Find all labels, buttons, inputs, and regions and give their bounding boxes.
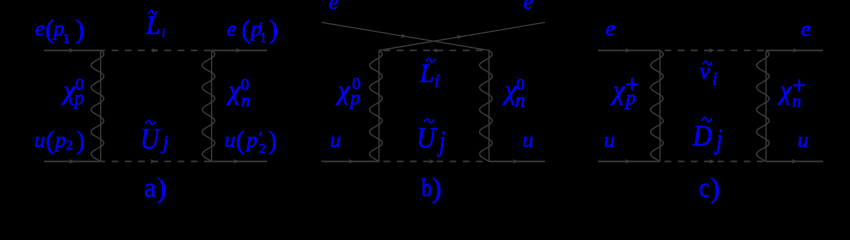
svg-text:D: D	[692, 120, 713, 153]
svg-text:(: (	[236, 126, 245, 155]
svg-text:U: U	[417, 122, 437, 155]
svg-text:2: 2	[259, 142, 266, 157]
svg-text:): )	[710, 172, 720, 204]
svg-text:e: e	[35, 16, 45, 41]
svg-text:u: u	[523, 127, 534, 152]
svg-text:n: n	[241, 91, 250, 111]
svg-text:p: p	[72, 88, 84, 110]
svg-text:2: 2	[66, 139, 73, 154]
svg-text:n: n	[792, 91, 801, 111]
svg-text:): )	[432, 172, 442, 204]
svg-text:u: u	[798, 127, 809, 152]
svg-text:b: b	[422, 174, 432, 201]
svg-text:): )	[157, 172, 167, 204]
svg-text:e: e	[606, 16, 616, 41]
svg-text:e: e	[523, 0, 533, 14]
svg-text:(: (	[46, 126, 55, 155]
svg-text:n: n	[515, 90, 525, 112]
svg-text:i: i	[712, 69, 717, 90]
svg-text:): )	[269, 15, 278, 44]
svg-text:1: 1	[260, 31, 267, 46]
svg-text:a: a	[144, 172, 156, 202]
svg-text:u: u	[330, 127, 341, 152]
svg-text:L: L	[145, 11, 160, 40]
svg-text:e: e	[801, 16, 811, 41]
svg-text:p: p	[624, 88, 636, 110]
svg-text:): )	[76, 15, 85, 44]
svg-text:i: i	[434, 71, 439, 92]
svg-text:u: u	[225, 127, 236, 152]
svg-text:χ: χ	[777, 75, 793, 105]
svg-text:χ: χ	[226, 75, 242, 105]
svg-text:L: L	[419, 59, 434, 88]
svg-text:): )	[76, 126, 85, 155]
svg-text:i: i	[162, 25, 166, 40]
svg-text:(: (	[242, 15, 251, 44]
svg-text:1: 1	[63, 32, 70, 47]
svg-text:p: p	[245, 127, 258, 152]
svg-text:u: u	[604, 127, 615, 152]
svg-text:p: p	[53, 127, 66, 152]
svg-text:χ: χ	[610, 75, 626, 105]
svg-text:e: e	[329, 0, 339, 14]
svg-text:): )	[268, 126, 277, 155]
svg-text:ν: ν	[700, 59, 711, 85]
svg-text:U: U	[140, 123, 160, 156]
svg-text:χ: χ	[335, 75, 351, 105]
svg-text:u: u	[34, 127, 45, 152]
svg-text:c: c	[699, 174, 709, 203]
svg-text:e: e	[227, 16, 237, 41]
svg-text:p: p	[348, 87, 360, 109]
